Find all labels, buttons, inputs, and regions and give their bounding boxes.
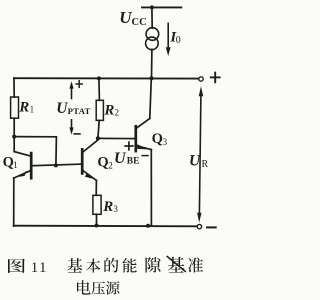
node Q3 emitter / rail — [146, 224, 150, 228]
wire — [151, 7, 153, 28]
terminal - output — [197, 224, 201, 228]
svg-text:R: R — [102, 199, 113, 215]
svg-text:Q: Q — [3, 155, 14, 171]
plus sign UBE — [125, 145, 133, 147]
wire Q1 emitter to ground rail — [13, 178, 15, 226]
svg-text:Q: Q — [152, 131, 163, 147]
minus sign UBE superscript — [142, 155, 148, 157]
svg-text:3: 3 — [163, 137, 168, 147]
terminal + output — [199, 77, 203, 81]
wire — [96, 214, 98, 225]
voltage arrow UR bottom — [197, 213, 201, 223]
svg-text:U: U — [119, 8, 132, 27]
node R3 bottom — [95, 224, 99, 228]
minus sign UPTAT — [74, 133, 80, 135]
node Ucc tap — [150, 5, 154, 9]
plus sign UPTAT — [76, 83, 82, 85]
wire top rail — [14, 77, 199, 79]
svg-text:Q: Q — [97, 154, 108, 170]
wire — [95, 180, 97, 195]
caption 的 — [104, 258, 118, 273]
transistor Q2 — [81, 149, 84, 173]
node R2 top — [97, 76, 101, 80]
svg-text:U: U — [114, 150, 127, 167]
wire Q3 emitter down — [150, 150, 152, 226]
node R1 bottom tap — [12, 135, 16, 139]
current arrow I0 — [167, 23, 169, 48]
resistor R3 — [93, 195, 101, 214]
wire — [13, 78, 15, 97]
svg-text:1: 1 — [13, 160, 17, 170]
node base junction — [54, 163, 58, 167]
wire Q3 base — [98, 137, 136, 139]
svg-text:R: R — [103, 103, 114, 119]
wire — [13, 118, 15, 151]
transistor Q1 — [30, 153, 33, 178]
minus sign output — [207, 226, 216, 228]
wire — [98, 120, 99, 138]
svg-text:0: 0 — [176, 35, 181, 46]
transistor Q3 — [134, 126, 137, 151]
svg-text:BE: BE — [127, 157, 140, 167]
svg-text:1: 1 — [30, 105, 34, 115]
voltage arrow UR top — [199, 95, 201, 213]
voltage arrow UPTAT + — [71, 88, 73, 99]
wire — [97, 138, 99, 140]
caption 压 — [91, 282, 105, 295]
svg-text:R: R — [202, 159, 209, 170]
caption 源 — [106, 281, 120, 294]
wire base line Q1-Q2 — [31, 164, 82, 166]
wire — [98, 78, 101, 100]
wire Q3 collector to rail — [150, 78, 152, 118]
current source I0 — [146, 28, 159, 41]
strike mark on caption — [167, 257, 185, 272]
svg-text:U: U — [189, 153, 201, 170]
wire diode connection to bases — [14, 137, 56, 166]
svg-text:2: 2 — [108, 160, 113, 170]
svg-text:R: R — [18, 100, 29, 116]
wire — [151, 49, 153, 78]
resistor R1 — [11, 97, 19, 118]
node Q2 collector / Q3 base — [96, 136, 100, 140]
caption 本 — [86, 259, 100, 273]
wire Ucc supply stub — [142, 6, 181, 8]
caption 基 — [67, 258, 82, 272]
caption 能 — [122, 258, 136, 272]
wire bottom rail — [14, 225, 197, 228]
svg-text:U: U — [56, 100, 68, 117]
caption 准 — [188, 257, 203, 272]
caption 基 (struck) — [168, 257, 185, 273]
caption 隙 — [146, 257, 161, 273]
resistor R2 — [96, 100, 103, 120]
plus sign output — [211, 76, 220, 78]
svg-text:11: 11 — [31, 260, 48, 276]
svg-text:PTAT: PTAT — [68, 106, 91, 116]
node collector Q3 / rail — [150, 76, 154, 80]
voltage arrow UPTAT - — [71, 120, 73, 128]
svg-text:2: 2 — [115, 107, 120, 117]
caption 图 — [8, 259, 25, 273]
caption 电 — [77, 280, 91, 294]
svg-text:CC: CC — [132, 17, 147, 28]
svg-text:3: 3 — [113, 204, 118, 214]
